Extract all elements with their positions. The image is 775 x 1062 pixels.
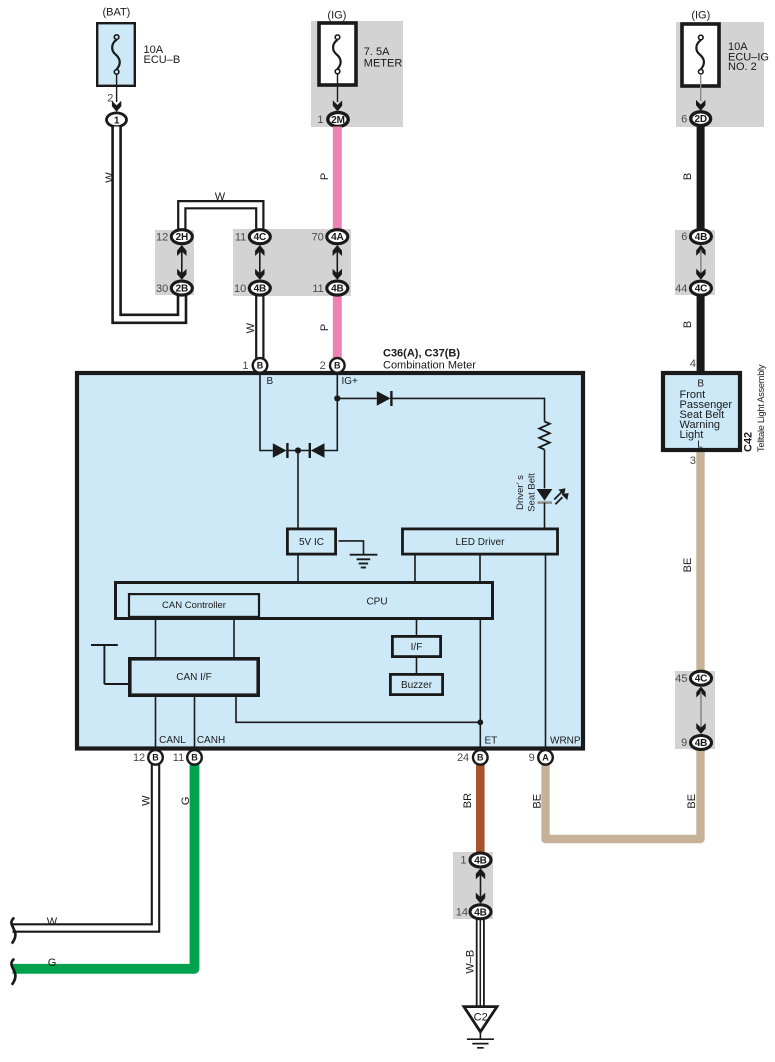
wire BE from 4B down left up to WRNP pin bbox=[546, 749, 701, 839]
label (IG) meter bbox=[327, 10, 346, 22]
connector 4C oval bbox=[249, 230, 270, 244]
inline arrows 4C-4B bbox=[255, 245, 264, 280]
wire W from meter pin 12 to left bbox=[13, 765, 156, 929]
svg-text:Telltale Light Assembly: Telltale Light Assembly bbox=[756, 364, 766, 452]
wire B pin1 down bbox=[260, 375, 273, 451]
svg-text:Driver’ s: Driver’ s bbox=[515, 475, 526, 510]
inline arrows 4B-4C right bbox=[696, 245, 705, 280]
pin 1 B circle bbox=[253, 358, 268, 373]
wire IG+ dot to diode D3 bbox=[337, 397, 377, 399]
ground symbol C2 bbox=[464, 1007, 497, 1048]
telltale light assembly box C42 bbox=[663, 373, 740, 450]
wire W from connector 1 to connector 2B bbox=[117, 127, 182, 319]
wire IG+ pin2 down bbox=[336, 375, 338, 398]
svg-text:B: B bbox=[682, 321, 694, 328]
svg-text:2M: 2M bbox=[331, 115, 345, 126]
connector 4B oval right top bbox=[690, 230, 711, 244]
svg-text:30: 30 bbox=[156, 283, 168, 295]
node B telltale label bbox=[697, 379, 704, 390]
box I/F bbox=[392, 636, 440, 656]
wire diode D1 to node bbox=[287, 450, 309, 452]
pin 1 number bbox=[242, 360, 248, 372]
connector block shading 4B/4B bottom bbox=[453, 852, 493, 919]
svg-text:1: 1 bbox=[242, 360, 248, 372]
label Telltale Light Assembly vertical bbox=[756, 364, 766, 452]
svg-text:G: G bbox=[48, 957, 57, 969]
label CANL bbox=[159, 735, 186, 746]
pin 11 label 4B pink bbox=[312, 283, 323, 295]
wire 5V IC to CPU bbox=[297, 555, 299, 583]
svg-text:(IG): (IG) bbox=[327, 10, 346, 22]
connector block shading 2H/2B bbox=[155, 230, 194, 295]
svg-text:1: 1 bbox=[460, 855, 466, 867]
svg-text:4B: 4B bbox=[254, 284, 266, 295]
svg-text:Seat Belt: Seat Belt bbox=[526, 473, 537, 512]
wire W-B from 4B to ground C2 bbox=[476, 919, 485, 1007]
svg-text:P: P bbox=[319, 173, 331, 180]
inline arrows 4B-4B bottom bbox=[476, 868, 485, 903]
pin 9 number bbox=[529, 752, 535, 764]
wire W link 2H to 4C bbox=[182, 205, 260, 231]
diode D2 IG-line bbox=[310, 443, 325, 458]
node L telltale label bbox=[697, 440, 703, 451]
connector block shading 4B/4C right bbox=[675, 230, 715, 295]
label P upper bbox=[319, 173, 331, 180]
svg-text:4C: 4C bbox=[254, 232, 266, 243]
wire diode D2 to IG riser bbox=[325, 398, 338, 450]
wire CANH to pin 11 bbox=[194, 695, 196, 751]
combination meter box bbox=[77, 373, 583, 749]
wire fuse F3 to connector 2D bbox=[700, 74, 702, 101]
diode D3 bbox=[377, 391, 392, 406]
svg-text:W: W bbox=[47, 916, 58, 928]
svg-text:B: B bbox=[477, 753, 484, 763]
svg-text:2: 2 bbox=[320, 360, 326, 372]
label P lower bbox=[319, 324, 331, 331]
svg-text:CAN Controller: CAN Controller bbox=[162, 600, 226, 611]
inline arrows 4A-4B bbox=[333, 245, 342, 280]
svg-text:B: B bbox=[152, 753, 159, 763]
svg-text:5V IC: 5V IC bbox=[299, 537, 324, 548]
connector 4C oval lower right bbox=[691, 671, 712, 685]
label W top link bbox=[215, 191, 226, 203]
svg-text:(BAT): (BAT) bbox=[102, 7, 130, 19]
svg-text:4B: 4B bbox=[695, 738, 707, 749]
svg-text:11: 11 bbox=[312, 283, 323, 295]
label WRNP bbox=[550, 735, 581, 746]
svg-text:LED Driver: LED Driver bbox=[456, 537, 506, 548]
connector 2M oval bbox=[328, 112, 348, 126]
pin 11 number bbox=[173, 752, 184, 764]
svg-text:W: W bbox=[245, 322, 257, 333]
pin 1 label 2M bbox=[317, 114, 323, 126]
inline arrows 2H-2B bbox=[177, 245, 186, 280]
svg-text:24: 24 bbox=[457, 752, 469, 764]
label W mid bbox=[245, 322, 257, 333]
connector 4A oval bbox=[327, 230, 348, 244]
svg-text:C42: C42 bbox=[743, 432, 755, 452]
label CANH bbox=[197, 735, 225, 746]
LED driver's seat belt bbox=[537, 488, 569, 504]
svg-text:4A: 4A bbox=[331, 232, 343, 243]
wire BR from ET pin to 4B bbox=[476, 765, 485, 854]
wire P from 4B to meter pin 2 bbox=[333, 296, 342, 360]
svg-text:9: 9 bbox=[529, 752, 535, 764]
connector 4B oval lower right bbox=[691, 736, 712, 750]
label B upper right bbox=[682, 173, 694, 180]
label Driver's Seat Belt bbox=[515, 473, 537, 512]
label W left wire bbox=[104, 172, 116, 183]
label BE right lower bbox=[686, 794, 698, 809]
svg-text:C2: C2 bbox=[474, 1012, 488, 1024]
connector 2H oval bbox=[171, 230, 192, 244]
svg-text:BR: BR bbox=[462, 793, 474, 808]
pin 2 label bbox=[107, 92, 113, 104]
svg-text:BE: BE bbox=[682, 558, 694, 573]
ground inside meter bbox=[339, 541, 378, 568]
telltale text bbox=[680, 389, 733, 441]
wire W from 4B to meter pin 1 bbox=[255, 296, 264, 360]
wire D3 to resistor bbox=[391, 398, 544, 421]
svg-text:Buzzer: Buzzer bbox=[401, 680, 433, 691]
wire CAN controller to CAN I/F left bbox=[155, 618, 157, 659]
box Buzzer bbox=[390, 674, 442, 694]
svg-text:I/F: I/F bbox=[411, 642, 423, 653]
node power junction dot bbox=[295, 447, 301, 453]
pin 6 label 4B right bbox=[681, 231, 687, 243]
connector 1 oval bbox=[107, 113, 127, 127]
wire CPU to I/F bbox=[416, 619, 418, 637]
label C42 vertical bbox=[743, 432, 755, 452]
inline arrows 4C-4B lower right bbox=[696, 687, 705, 735]
pin 12 number bbox=[133, 752, 145, 764]
wire LED to LED driver bbox=[544, 503, 546, 528]
break squiggle G bbox=[11, 959, 15, 985]
label BR bbox=[462, 793, 474, 808]
svg-text:12: 12 bbox=[133, 752, 145, 764]
pin 4 number bbox=[690, 358, 696, 370]
svg-text:2H: 2H bbox=[176, 232, 188, 243]
svg-text:1: 1 bbox=[317, 114, 323, 126]
svg-text:B: B bbox=[267, 376, 274, 387]
wire fuse F1 to connector 1 bbox=[116, 74, 118, 102]
svg-text:A: A bbox=[542, 753, 549, 763]
break squiggle W bbox=[11, 918, 15, 944]
svg-text:B: B bbox=[682, 173, 694, 180]
svg-text:14: 14 bbox=[456, 907, 468, 919]
svg-text:4B: 4B bbox=[695, 232, 707, 243]
connector 4B oval bottom lower bbox=[470, 905, 491, 919]
svg-text:CANL: CANL bbox=[159, 735, 186, 746]
svg-text:4: 4 bbox=[690, 358, 696, 370]
pin 9 A circle bbox=[538, 750, 553, 765]
svg-text:B: B bbox=[697, 379, 704, 390]
svg-text:4C: 4C bbox=[695, 674, 707, 685]
svg-text:W: W bbox=[215, 191, 226, 203]
pin 1 label 4B bottom bbox=[460, 855, 466, 867]
svg-text:12: 12 bbox=[156, 231, 168, 243]
arrow into connector 2D bbox=[696, 100, 705, 111]
svg-text:B: B bbox=[257, 361, 264, 371]
pin 70 label 4A bbox=[312, 231, 324, 243]
connector block shading 4C/4B lower right bbox=[675, 671, 715, 749]
svg-text:4B: 4B bbox=[474, 856, 486, 867]
svg-text:NO. 2: NO. 2 bbox=[728, 61, 757, 73]
wire LED driver to CPU left bbox=[414, 555, 416, 583]
svg-text:4B: 4B bbox=[331, 284, 343, 295]
pin 44 label 4C right bbox=[675, 283, 687, 295]
wire CAN I/F to ET junction bbox=[236, 695, 480, 722]
box CAN Controller bbox=[129, 594, 259, 617]
fuse F3 10A ECU-IG NO.2 bbox=[682, 24, 719, 86]
pin 24 number bbox=[457, 752, 469, 764]
label 7.5A METER bbox=[364, 46, 403, 70]
pin 2 number bbox=[320, 360, 326, 372]
wire I/F to buzzer bbox=[416, 657, 418, 674]
svg-text:METER: METER bbox=[364, 58, 403, 70]
svg-text:C36(A), C37(B): C36(A), C37(B) bbox=[383, 348, 460, 360]
node B internal label bbox=[267, 376, 274, 387]
pin 11 B circle bbox=[187, 750, 202, 765]
box 5V IC bbox=[287, 529, 335, 554]
svg-text:BE: BE bbox=[686, 794, 698, 809]
svg-text:2B: 2B bbox=[176, 284, 188, 295]
wire BE from telltale pin 3 to 4C bbox=[696, 452, 704, 672]
box LED Driver bbox=[403, 529, 558, 554]
svg-text:44: 44 bbox=[675, 283, 687, 295]
svg-text:P: P bbox=[319, 324, 331, 331]
pin 6 label 2D bbox=[681, 113, 687, 125]
svg-text:WRNP: WRNP bbox=[550, 735, 581, 746]
label Combination Meter bbox=[383, 360, 476, 372]
wire CPU to ET pin bbox=[479, 619, 481, 751]
diode D1 B-line bbox=[273, 443, 288, 458]
svg-text:70: 70 bbox=[312, 231, 324, 243]
pin 3 number bbox=[690, 455, 696, 467]
svg-text:10: 10 bbox=[234, 283, 246, 295]
label BE left lower bbox=[531, 794, 543, 809]
label W below pin 12 bbox=[141, 795, 153, 806]
label G below pin 11 bbox=[180, 797, 192, 806]
pin 45 label 4C lower bbox=[675, 673, 687, 685]
label BE right upper bbox=[682, 558, 694, 573]
connector 4B oval bottom upper bbox=[470, 853, 491, 867]
svg-text:B: B bbox=[334, 361, 341, 371]
svg-text:4C: 4C bbox=[695, 284, 707, 295]
connector 4B oval mid bbox=[249, 281, 270, 295]
pin 14 label 4B bottom bbox=[456, 907, 468, 919]
label ET bbox=[485, 735, 498, 746]
svg-text:IG+: IG+ bbox=[342, 376, 359, 387]
wire B from 4C to telltale assembly bbox=[697, 296, 705, 372]
pin 12 B circle bbox=[148, 750, 163, 765]
svg-text:B: B bbox=[191, 753, 198, 763]
pin 24 B circle bbox=[473, 750, 488, 765]
svg-text:W: W bbox=[104, 172, 116, 183]
junction block shading (ECU-IG fuse) bbox=[676, 22, 764, 127]
svg-text:6: 6 bbox=[681, 113, 687, 125]
arrow into connector 2M bbox=[333, 100, 342, 111]
label (BAT) bbox=[102, 7, 130, 19]
svg-text:W–B: W–B bbox=[465, 950, 477, 974]
pin 2 B circle bbox=[330, 358, 345, 373]
label 10A ECU-B bbox=[144, 44, 181, 66]
svg-text:3: 3 bbox=[690, 455, 696, 467]
pin 10 label 4B bbox=[234, 283, 246, 295]
svg-text:(IG): (IG) bbox=[691, 10, 710, 22]
pin 12 label 2H bbox=[156, 231, 168, 243]
label W bottom bbox=[47, 916, 58, 928]
connector 4B oval pink bbox=[327, 281, 348, 295]
label C36(A), C37(B) bbox=[383, 348, 460, 360]
pin 11 label 4C bbox=[235, 231, 246, 243]
svg-text:BE: BE bbox=[531, 794, 543, 809]
wire WRNP from LED driver to pin 9 bbox=[545, 555, 547, 751]
svg-text:CAN I/F: CAN I/F bbox=[176, 672, 212, 683]
svg-text:11: 11 bbox=[235, 231, 246, 243]
arrow into connector 1 bbox=[112, 101, 121, 112]
label 10A ECU-IG NO.2 bbox=[728, 41, 769, 73]
svg-text:Combination Meter: Combination Meter bbox=[383, 360, 476, 372]
node IG+ internal label bbox=[342, 376, 359, 387]
wire node to 5V IC bbox=[297, 451, 299, 529]
fuse F2 7.5A METER bbox=[319, 23, 356, 85]
label W-B bbox=[465, 950, 477, 974]
connector block shading 4C/4B 4A/4B bbox=[233, 229, 351, 296]
resistor R1 bbox=[539, 422, 550, 450]
wire CANL to pin 12 bbox=[155, 695, 157, 751]
svg-text:CANH: CANH bbox=[197, 735, 225, 746]
svg-text:2D: 2D bbox=[695, 114, 707, 125]
svg-text:9: 9 bbox=[681, 737, 687, 749]
connector 2B oval bbox=[171, 281, 192, 295]
junction block J/B shading (meter fuse) bbox=[311, 21, 403, 127]
label B lower right bbox=[682, 321, 694, 328]
wire fuse F2 to connector 2M bbox=[337, 74, 339, 102]
svg-text:ECU–B: ECU–B bbox=[144, 54, 181, 66]
connector 2D oval bbox=[691, 112, 711, 126]
svg-text:11: 11 bbox=[173, 752, 184, 764]
wire G from meter pin 11 to left bbox=[13, 765, 195, 969]
svg-text:45: 45 bbox=[675, 673, 687, 685]
fuse F1 10A ECU-B bbox=[97, 23, 135, 86]
node IG+ dot bbox=[334, 395, 340, 401]
svg-text:6: 6 bbox=[681, 231, 687, 243]
wire resistor to LED bbox=[544, 450, 546, 489]
svg-text:ET: ET bbox=[485, 735, 498, 746]
label G bottom bbox=[48, 957, 57, 969]
pin 9 label 4B lower bbox=[681, 737, 687, 749]
label (IG) ecu-ig bbox=[691, 10, 710, 22]
connector 4C oval right bbox=[690, 281, 711, 295]
wire P from 2M to 4A bbox=[333, 127, 342, 231]
box CPU bbox=[116, 583, 493, 619]
wire LED driver to CPU right bbox=[479, 555, 481, 583]
wire B from 2D to 4B bbox=[697, 126, 705, 231]
box CAN I/F bbox=[130, 659, 258, 695]
svg-text:CPU: CPU bbox=[366, 596, 387, 607]
antenna stub bbox=[91, 645, 129, 684]
svg-text:L: L bbox=[697, 440, 703, 451]
pin 30 label 2B bbox=[156, 283, 168, 295]
wire CAN controller to CAN I/F right bbox=[233, 618, 235, 659]
svg-text:4B: 4B bbox=[474, 907, 486, 918]
node ET junction dot bbox=[477, 719, 483, 725]
svg-text:7. 5A: 7. 5A bbox=[364, 46, 390, 58]
svg-text:1: 1 bbox=[114, 115, 120, 126]
